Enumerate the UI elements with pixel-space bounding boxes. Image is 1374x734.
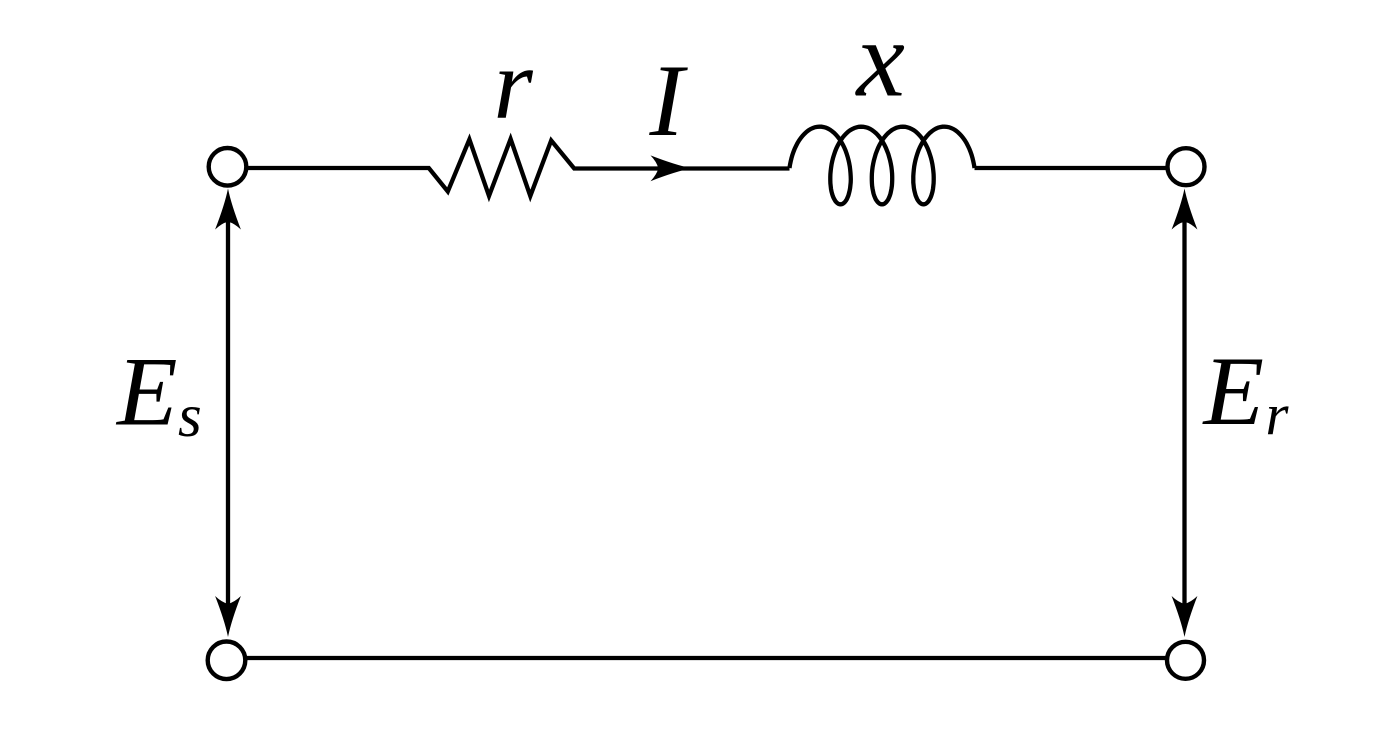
svg-text:I: I	[649, 44, 689, 158]
svg-text:s: s	[178, 383, 202, 450]
svg-text:E: E	[115, 338, 177, 447]
svg-text:r: r	[494, 28, 534, 140]
svg-text:x: x	[855, 0, 905, 120]
svg-text:r: r	[1266, 382, 1290, 448]
svg-text:E: E	[1202, 337, 1264, 446]
